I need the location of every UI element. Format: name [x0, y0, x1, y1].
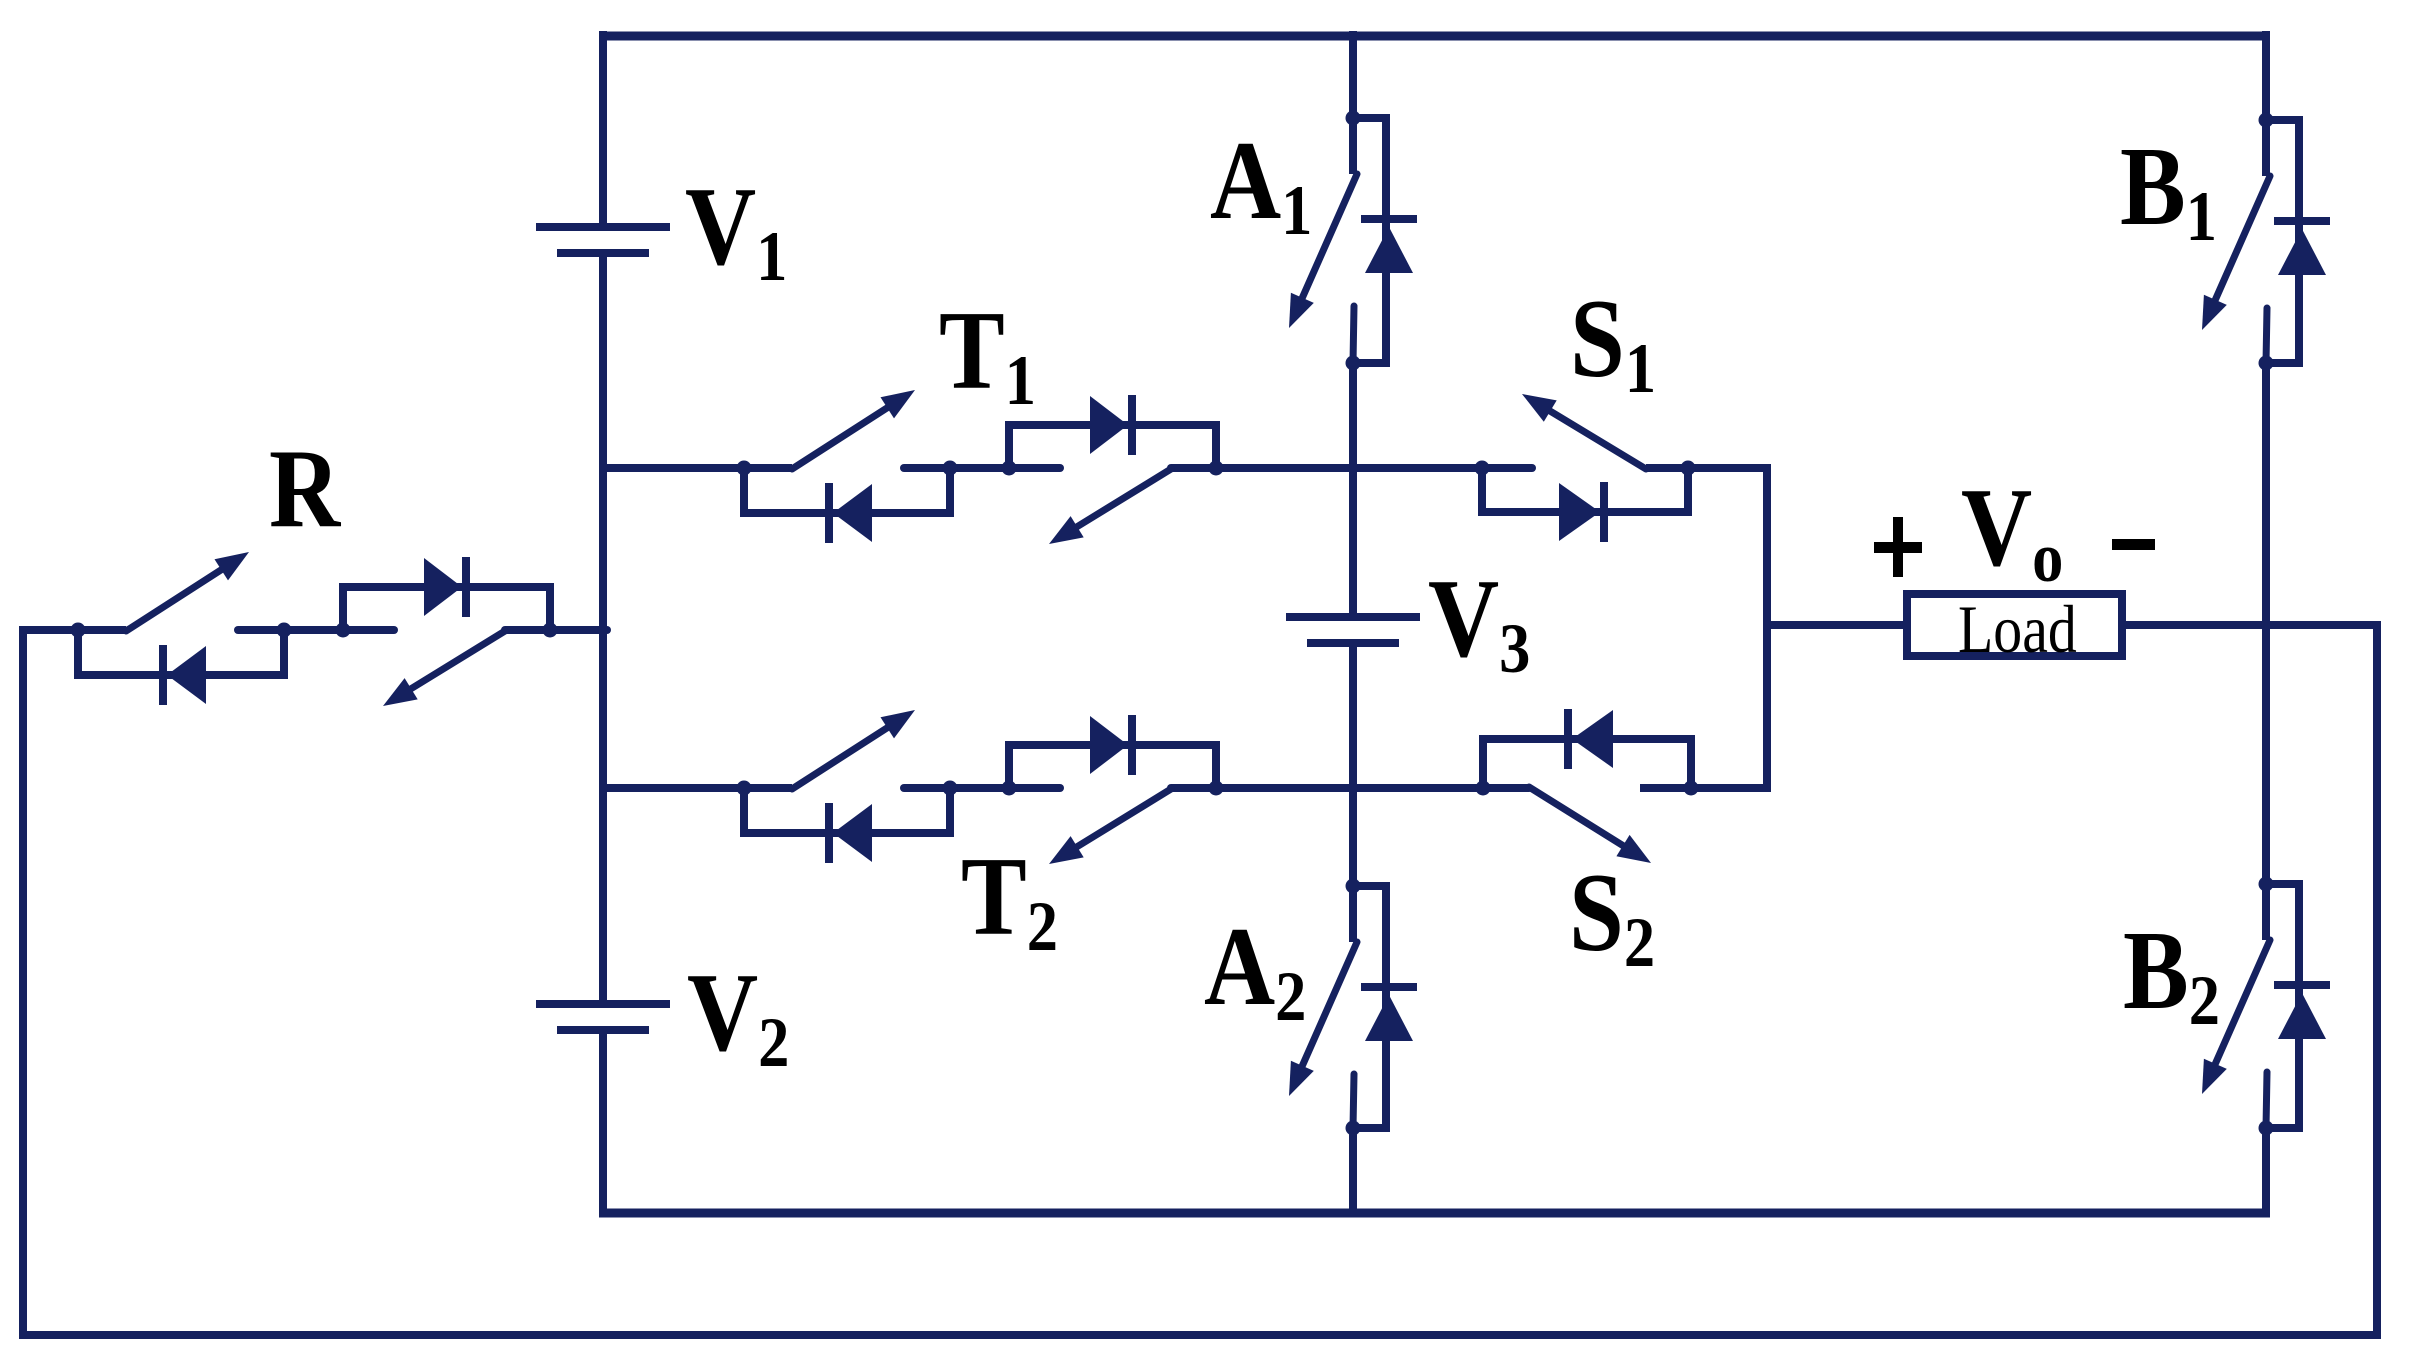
wire B1 right bypass [2266, 120, 2299, 363]
diode R upper (pointing right) [424, 557, 466, 617]
diode T1 upper (pointing right) [1090, 395, 1132, 455]
wire A1 right bypass [1353, 118, 1386, 363]
label B1 [2120, 124, 2217, 256]
node T1 mid-left junction [943, 461, 958, 476]
voltage source V3 (battery) [1286, 617, 1420, 643]
wire S1 lower bypass [1482, 468, 1688, 512]
diode S1 (pointing right) [1559, 482, 1604, 542]
wire R lower bypass [78, 630, 284, 675]
diode A1 (pointing up) [1361, 219, 1417, 273]
wire center column bottom segment [1349, 1128, 1357, 1213]
node T2 left junction [737, 781, 752, 796]
svg-text:R: R [269, 426, 342, 550]
voltage source V2 (battery) [536, 1004, 670, 1030]
switch B1 arm [2202, 176, 2270, 330]
node T1 mid-right junction [1002, 461, 1017, 476]
wire left rail lower segment [599, 1030, 607, 1217]
wire R row segment c [505, 626, 607, 634]
wire A2 pivot stub [1349, 886, 1357, 942]
wire T2 lower bypass [744, 788, 950, 833]
label R [269, 426, 342, 550]
node T1 right junction [1209, 461, 1224, 476]
diode A2 (pointing up) [1361, 987, 1417, 1041]
svg-text:V1: V1 [685, 164, 787, 296]
label plus sign of Vo [1874, 517, 1922, 577]
wire right column top segment [2262, 31, 2270, 120]
switch T1 upper arm [792, 390, 915, 469]
node B1 top junction [2259, 113, 2274, 128]
diode B2 (pointing up) [2274, 985, 2330, 1039]
switch T1 lower arm [1049, 469, 1171, 544]
svg-text:T1: T1 [939, 288, 1036, 420]
switch T2 upper arm [792, 710, 915, 789]
wire center column lower-middle segment [1349, 641, 1357, 886]
node B2 bottom junction [2259, 1121, 2274, 1136]
wire center column top segment [1349, 31, 1357, 118]
label T1 [939, 288, 1036, 420]
node B2 top junction [2259, 877, 2274, 892]
wire S2 upper bypass [1483, 739, 1691, 788]
label A2 [1204, 904, 1306, 1036]
label minus sign of Vo [2112, 539, 2155, 550]
diode T1 lower (pointing left) [829, 483, 872, 543]
diode T2 lower (pointing left) [829, 803, 872, 863]
node T1 left junction [737, 461, 752, 476]
node T2 mid-right junction [1002, 781, 1017, 796]
wire B2 pivot stub [2262, 884, 2270, 940]
node R left junction [71, 623, 86, 638]
wire T2 row segment a [599, 784, 792, 792]
label S1 [1570, 276, 1656, 408]
node S2 right junction [1684, 781, 1699, 796]
wire R upper bypass [343, 587, 550, 630]
label T2 [961, 834, 1058, 966]
svg-text:A2: A2 [1204, 904, 1306, 1036]
wire A2 right bypass [1353, 886, 1386, 1128]
wire T1 row segment c [1171, 464, 1532, 472]
node A2 top junction [1346, 879, 1361, 894]
wire load row right segment [2118, 621, 2381, 629]
node B1 bottom junction [2259, 356, 2274, 371]
wire inner bottom rail [599, 1209, 2270, 1218]
wire B1 contact stub [2266, 308, 2267, 363]
switch R lower arm [383, 631, 505, 706]
svg-text:T2: T2 [961, 834, 1058, 966]
wire B1 pivot stub [2262, 120, 2270, 176]
switch R upper arm [126, 552, 249, 631]
node T2 right junction [1209, 781, 1224, 796]
svg-text:B1: B1 [2120, 124, 2217, 256]
node S2 left junction [1476, 781, 1491, 796]
voltage source V1 (battery) [536, 227, 670, 253]
wire R row segment b [238, 626, 394, 634]
svg-text:V3: V3 [1428, 556, 1530, 688]
wire T2 upper bypass [1009, 745, 1216, 788]
wire S1 row segment d [1646, 464, 1771, 472]
node R mid-left junction [277, 623, 292, 638]
wire right column middle segment [2262, 363, 2270, 884]
wire T1 upper bypass [1009, 425, 1216, 468]
wire T1 row segment a [603, 464, 792, 472]
label V3 [1428, 556, 1530, 688]
diode S2 (pointing left) [1568, 709, 1613, 769]
svg-text:S1: S1 [1570, 276, 1656, 408]
wire B2 right bypass [2266, 884, 2299, 1128]
wire top rail [599, 32, 2270, 41]
switch A2 arm [1289, 942, 1357, 1096]
label V2 [687, 950, 789, 1082]
switch B2 arm [2202, 940, 2270, 1094]
node S1 right junction [1681, 461, 1696, 476]
wire S2 row segment d [1640, 784, 1771, 792]
switch S1 arm [1522, 394, 1646, 469]
wire R row segment a [19, 626, 126, 634]
wire center column upper-middle segment [1349, 363, 1357, 617]
wire outer bottom rail [19, 1331, 2381, 1339]
svg-text:B2: B2 [2123, 908, 2220, 1040]
wire A1 contact stub [1353, 306, 1354, 363]
wire outer right column [2373, 621, 2381, 1339]
wire A1 pivot stub [1349, 118, 1357, 174]
wire B2 contact stub [2266, 1072, 2267, 1128]
wire load row left segment [1767, 621, 1911, 629]
wire right column bottom segment [2262, 1128, 2270, 1217]
node A1 top junction [1346, 111, 1361, 126]
svg-text:Vo: Vo [1961, 465, 2063, 597]
node S1 left junction [1475, 461, 1490, 476]
wire outer left column [19, 626, 27, 1339]
wire T1 lower bypass [744, 468, 950, 513]
svg-text:S2: S2 [1569, 850, 1655, 982]
wire T2 row segment c [1171, 784, 1529, 792]
wire left rail upper segment [599, 31, 607, 227]
switch A1 arm [1289, 174, 1357, 328]
diode T2 upper (pointing right) [1090, 715, 1132, 775]
node A1 bottom junction [1346, 356, 1361, 371]
wire T2 row segment b [904, 784, 1060, 792]
label B2 [2123, 908, 2220, 1040]
diode B1 (pointing up) [2274, 221, 2330, 275]
node R mid-right junction [336, 623, 351, 638]
node A2 bottom junction [1346, 1121, 1361, 1136]
switch S2 arm [1529, 787, 1651, 863]
node T2 mid-left junction [943, 781, 958, 796]
label V1 [685, 164, 787, 296]
switch T2 lower arm [1049, 789, 1171, 864]
svg-text:Load: Load [1958, 592, 2077, 667]
svg-text:A1: A1 [1210, 118, 1312, 250]
wire S column [1763, 464, 1771, 792]
node R right junction [543, 623, 558, 638]
label V0 [1961, 465, 2063, 597]
diode R lower (pointing left) [163, 645, 206, 705]
wire A2 contact stub [1353, 1074, 1354, 1128]
svg-text:V2: V2 [687, 950, 789, 1082]
wire T1 row segment b [904, 464, 1060, 472]
wire left rail middle segment [599, 253, 607, 1004]
label A1 [1210, 118, 1312, 250]
label S2 [1569, 850, 1655, 982]
load (output resistor box) [1907, 592, 2122, 667]
